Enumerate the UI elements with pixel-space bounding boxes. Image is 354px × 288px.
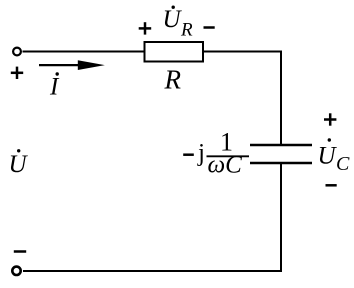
svg-text:U: U [9, 151, 29, 178]
label − (U_R right) [204, 26, 215, 29]
wire (resistor to top-right corner, down to capacitor) [203, 52, 281, 146]
svg-text:C: C [336, 153, 350, 175]
terminal (top-left) [13, 48, 21, 56]
wire (capacitor down, bottom wire to terminal) [23, 163, 281, 271]
resistor R [145, 42, 204, 62]
terminal (bottom-left) [12, 267, 20, 275]
svg-text:U: U [163, 6, 183, 33]
capacitor bottom plate [250, 162, 312, 165]
label U̇_R [163, 6, 194, 41]
label + (U_R left) [139, 22, 152, 34]
capacitor top plate [250, 144, 312, 147]
svg-text:j: j [197, 140, 205, 167]
svg-text:R: R [180, 20, 193, 41]
label −j 1/ωC (capacitor impedance) [183, 128, 249, 179]
label − (source bottom polarity) [14, 250, 26, 253]
wire (top-left terminal to resistor) [23, 51, 145, 53]
label İ (current) [49, 72, 60, 100]
label − (U_C bottom polarity) [326, 184, 337, 187]
label + (U_C top polarity) [324, 113, 336, 125]
svg-text:ωC: ωC [208, 152, 243, 179]
svg-text:U: U [318, 143, 338, 170]
label U̇_C [318, 138, 351, 175]
label + (source top polarity) [11, 67, 23, 79]
current arrow [39, 60, 105, 70]
svg-text:R: R [164, 65, 182, 95]
label U̇ (source voltage) [9, 149, 29, 178]
